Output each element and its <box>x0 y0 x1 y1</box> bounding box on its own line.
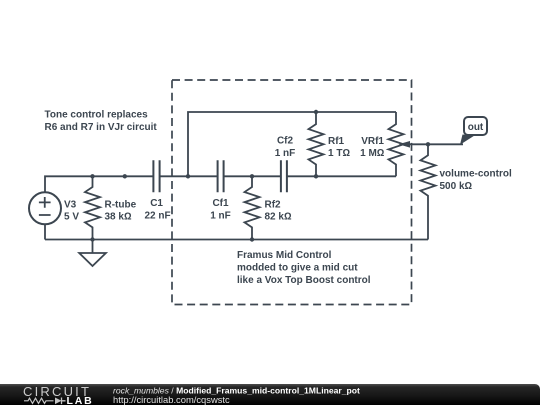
node E (Rf1 bottom) <box>314 174 318 178</box>
node D (Rf2 top) <box>250 174 254 178</box>
wire: wiper to out <box>409 143 463 145</box>
wire: bottom rail <box>45 239 428 241</box>
svg-text:out: out <box>468 122 484 133</box>
svg-text:Tone control replaces: Tone control replaces <box>45 110 149 121</box>
VRf1 wiper arrow <box>399 141 411 148</box>
svg-text:Cf2: Cf2 <box>277 135 294 146</box>
capacitor C1 <box>153 160 159 192</box>
wire: Cf2 to VRf1 bottom <box>287 175 396 177</box>
svg-text:1 nF: 1 nF <box>210 211 231 222</box>
node G (wiper / volume junction) <box>426 142 430 146</box>
footer bar <box>0 384 540 405</box>
svg-text:http://circuitlab.com/cqswstc: http://circuitlab.com/cqswstc <box>113 394 230 405</box>
wire: branch up and top rail to VRf1 <box>188 112 396 176</box>
svg-text:22 nF: 22 nF <box>144 211 170 222</box>
logo resistor squiggle <box>24 398 54 403</box>
wire: V3 bottom lead <box>44 224 46 239</box>
node H (ground junction) <box>90 237 94 241</box>
node B (junction on main wire) <box>123 174 127 178</box>
resistor Rf1 <box>309 112 324 176</box>
svg-text:38 kΩ: 38 kΩ <box>105 212 132 223</box>
wire: C1 to Cf1 <box>160 175 218 177</box>
dashed annotation box <box>172 80 412 305</box>
capacitor Cf1 <box>218 160 224 192</box>
ground <box>92 240 94 254</box>
resistor Rf2 <box>245 176 260 239</box>
node F (Rf1 top) <box>314 110 318 114</box>
voltage source V3 <box>29 192 61 224</box>
svg-text:LAB: LAB <box>67 395 94 405</box>
wire: left rail top (V3 to C1) <box>45 176 153 192</box>
svg-text:like a Vox Top Boost control: like a Vox Top Boost control <box>237 275 371 286</box>
node I (Rf2 bottom) <box>250 237 254 241</box>
capacitor Cf2 <box>281 160 287 192</box>
svg-text:Framus Mid Control: Framus Mid Control <box>237 250 332 261</box>
out flag tail <box>460 135 475 145</box>
svg-text:Rf2: Rf2 <box>265 199 282 210</box>
svg-text:R6 and R7 in VJr circuit: R6 and R7 in VJr circuit <box>45 122 158 133</box>
node C (branch-up junction) <box>186 174 190 178</box>
svg-text:Rf1: Rf1 <box>328 136 345 147</box>
svg-text:500 kΩ: 500 kΩ <box>440 181 473 192</box>
node A (R-tube top) <box>90 174 94 178</box>
resistor volume-control <box>421 144 436 239</box>
wire: Cf1 to Cf2 <box>224 175 281 177</box>
svg-text:82 kΩ: 82 kΩ <box>265 212 292 223</box>
svg-text:V3: V3 <box>64 199 77 210</box>
svg-text:5 V: 5 V <box>64 212 79 223</box>
svg-text:R-tube: R-tube <box>105 199 137 210</box>
out flag <box>464 117 487 135</box>
potentiometer VRf1 <box>389 112 404 176</box>
resistor R-tube <box>85 176 100 239</box>
svg-text:modded to give a mid cut: modded to give a mid cut <box>237 263 358 274</box>
svg-text:1 TΩ: 1 TΩ <box>328 148 350 159</box>
svg-text:1 nF: 1 nF <box>275 148 296 159</box>
svg-text:Cf1: Cf1 <box>212 198 229 209</box>
svg-text:volume-control: volume-control <box>440 169 512 180</box>
svg-text:C1: C1 <box>150 198 163 209</box>
logo diode <box>55 398 62 405</box>
svg-text:1 MΩ: 1 MΩ <box>360 148 385 159</box>
svg-text:VRf1: VRf1 <box>361 136 384 147</box>
